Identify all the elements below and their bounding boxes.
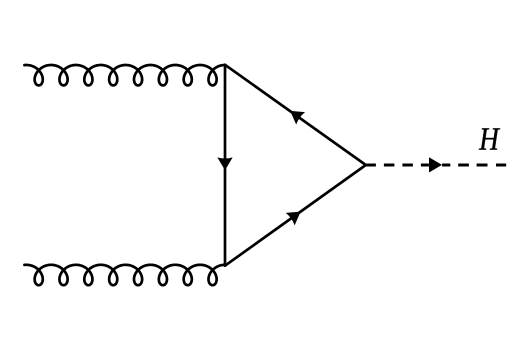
- gluon g2 (bottom incoming gluon coil): [24, 265, 225, 285]
- gluon g1 (top incoming gluon coil): [24, 65, 225, 85]
- label H (Higgs boson): [479, 128, 500, 149]
- arrow on left quark line (downward): [217, 157, 232, 170]
- arrow on top quark diagonal (toward upper-left): [290, 111, 305, 125]
- wire quark loop bottom diagonal (bottom vertex to right vertex): [225, 165, 366, 266]
- arrow on bottom quark diagonal (toward upper-right): [286, 212, 301, 226]
- wire quark loop left side (top vertex to bottom vertex): [224, 65, 227, 266]
- arrow on Higgs line (rightward): [429, 157, 442, 172]
- wire Higgs dashed propagator: [366, 164, 506, 167]
- wire quark loop top diagonal (right vertex to top vertex): [225, 65, 366, 165]
